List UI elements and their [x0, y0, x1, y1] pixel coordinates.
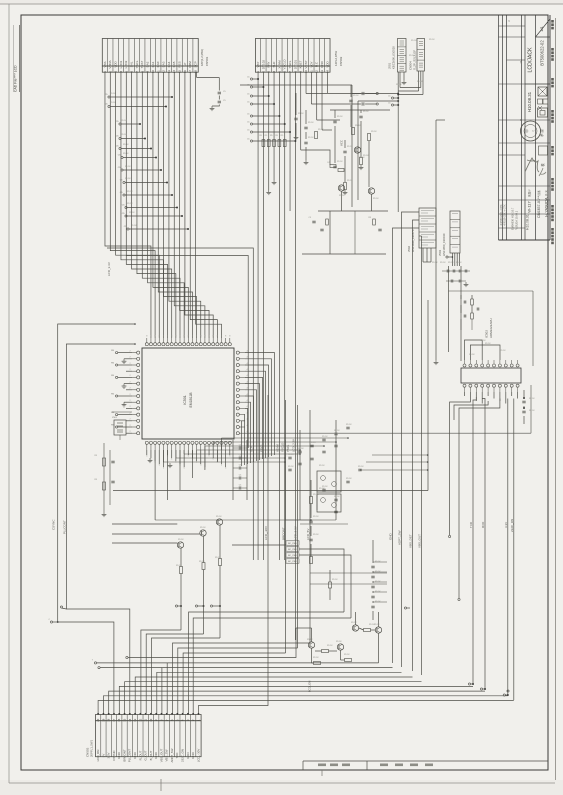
- wire right frame bus: [427, 300, 429, 491]
- pin bottom: [154, 441, 157, 444]
- pin left: [137, 413, 140, 416]
- test point stub: [250, 115, 252, 117]
- svg-text:YSCL: YSCL: [135, 60, 139, 68]
- opto coupler PC502: [317, 494, 341, 512]
- pin right: [236, 376, 239, 379]
- capacitor C540: [309, 520, 312, 522]
- test point R_OUT: [175, 605, 177, 607]
- svg-text:SCP: SCP: [249, 446, 253, 452]
- wire PC input rail: [155, 519, 311, 521]
- pin bottom: [220, 441, 223, 444]
- title sheet cell 1/1: [536, 19, 551, 37]
- pin right: [236, 425, 239, 428]
- capacitor: [371, 585, 374, 587]
- wire J501 drop: [397, 95, 399, 213]
- svg-text:R5 1K: R5 1K: [288, 454, 294, 456]
- pin bottom: [174, 441, 177, 444]
- pin left: [137, 388, 140, 391]
- wire cluster rails: [334, 110, 336, 118]
- title stamp boxes: [538, 87, 547, 96]
- svg-text:R5 1K: R5 1K: [456, 262, 462, 264]
- svg-text:R5 1K: R5 1K: [346, 478, 352, 480]
- capacitor C531: [463, 315, 465, 318]
- svg-text:LCD2: LCD2: [124, 60, 128, 68]
- pin bottom: [158, 441, 161, 444]
- transistor Q512: [352, 625, 358, 631]
- pin top: [174, 343, 177, 346]
- capacitor C532: [476, 308, 478, 311]
- svg-text:**: **: [519, 119, 523, 121]
- wire rails y85-99 top right: [240, 84, 352, 86]
- capacitor: [334, 498, 337, 500]
- wire IC502 top routing: [465, 340, 483, 360]
- svg-text:R5 1K: R5 1K: [334, 496, 340, 498]
- pin: [469, 364, 472, 367]
- svg-text:RC_PRO: RC_PRO: [288, 549, 297, 551]
- svg-text:PRY: PRY: [267, 61, 271, 67]
- capacitor C510: [333, 120, 336, 122]
- test point TXD: [468, 683, 470, 685]
- capacitor: [346, 426, 349, 428]
- svg-text:R5 1K: R5 1K: [336, 641, 342, 643]
- svg-text:R5 1K: R5 1K: [298, 448, 304, 450]
- wire IC501 bottom fanout: [146, 450, 148, 455]
- pin top: [228, 343, 231, 346]
- wire RGB jogs to pins: [141, 630, 181, 715]
- resistor R543: [345, 659, 352, 662]
- pin top: [199, 343, 202, 346]
- capacitor C520: [304, 126, 307, 128]
- svg-text:R5 1K: R5 1K: [375, 581, 381, 583]
- pin bottom: [203, 441, 206, 444]
- pin top: [187, 343, 190, 346]
- pin right: [236, 419, 239, 422]
- svg-text:R5 1K: R5 1K: [440, 262, 446, 264]
- test point stub: [250, 123, 252, 125]
- svg-text:X501: X501: [112, 417, 118, 419]
- test point C pair: [391, 97, 393, 99]
- pin bottom: [195, 441, 198, 444]
- transistor Q513: [375, 627, 381, 633]
- svg-text:R5 1K: R5 1K: [371, 131, 377, 133]
- wire bottom pin drops: [154, 450, 156, 520]
- title handwritten stamp: [525, 158, 539, 172]
- svg-text:GND: GND: [389, 533, 393, 541]
- wire CN502 right turns: [306, 93, 361, 95]
- svg-text:18: 18: [107, 718, 111, 721]
- wire pin-to-cap combs: [162, 450, 164, 462]
- capacitor: [310, 444, 313, 446]
- capacitor: [298, 450, 301, 452]
- svg-text:CB0357-01**: CB0357-01**: [537, 195, 541, 218]
- test point stub: [119, 137, 121, 139]
- resistor R513: [219, 559, 222, 566]
- wire GND vertical: [392, 300, 394, 663]
- ground CN504 drop: [435, 360, 437, 362]
- wire cap rails: [284, 440, 286, 520]
- ground CN502: [268, 190, 270, 192]
- pin top: [145, 343, 148, 346]
- pin top: [220, 343, 223, 346]
- connector CN502 14P: [255, 39, 330, 67]
- connector CN503 20P: [96, 715, 202, 721]
- svg-text:CAD File**** LCD: CAD File**** LCD: [14, 65, 18, 92]
- svg-text:VSY: VSY: [256, 61, 260, 67]
- wire U loop to CN504: [400, 87, 421, 89]
- svg-text:R5 1K: R5 1K: [308, 137, 314, 139]
- pin left: [137, 376, 140, 379]
- svg-text:16: 16: [117, 718, 121, 721]
- svg-text:YSCLD: YSCLD: [281, 443, 285, 452]
- svg-text:HSJ1636_010570: HSJ1636_010570: [411, 229, 415, 252]
- svg-text:R5 1K: R5 1K: [363, 111, 369, 113]
- svg-text:R5 1K: R5 1K: [313, 657, 319, 659]
- capacitor: [446, 270, 448, 273]
- wire SCP long feeder: [107, 248, 253, 560]
- svg-text:CN501: CN501: [205, 56, 209, 66]
- wire ADPT_SW vertical: [401, 300, 403, 667]
- pin top: [224, 343, 227, 346]
- svg-text:14: 14: [128, 718, 132, 721]
- svg-text:5V: 5V: [101, 754, 105, 758]
- test point stub: [119, 123, 121, 125]
- svg-text:RES: RES: [177, 61, 181, 67]
- svg-text:VDDA: VDDA: [108, 60, 112, 68]
- svg-text:17: 17: [112, 718, 116, 721]
- svg-text:R5 1K: R5 1K: [375, 571, 381, 573]
- capacitor C516: [361, 102, 363, 105]
- svg-text:R5 1K: R5 1K: [469, 354, 475, 356]
- svg-text:R5 1K: R5 1K: [123, 144, 129, 146]
- svg-text:VBS_SW: VBS_SW: [165, 749, 169, 761]
- svg-text:1/1: 1/1: [539, 25, 544, 31]
- svg-text:R5 1K: R5 1K: [375, 591, 381, 593]
- svg-text:R5 1K: R5 1K: [313, 516, 319, 518]
- svg-text:X1NM: X1NM: [275, 444, 279, 452]
- frame fold tick: [160, 779, 162, 791]
- svg-text:VOY: VOY: [309, 61, 313, 67]
- wire nested fan left group: [189, 612, 344, 715]
- ground below IC: [149, 458, 151, 460]
- capacitor C522: [294, 117, 297, 119]
- test point stub: [119, 147, 121, 149]
- wire J503 to IC502: [448, 266, 450, 352]
- svg-text:R5 1K: R5 1K: [359, 157, 365, 159]
- svg-text:R5 1K: R5 1K: [200, 527, 206, 529]
- transistor Q503: [216, 519, 222, 525]
- pin bottom: [212, 441, 215, 444]
- svg-text:VBS_DET: VBS_DET: [409, 534, 413, 548]
- pin right: [236, 407, 239, 410]
- capacitor: [238, 487, 240, 490]
- svg-text:YSCLD: YSCLD: [283, 59, 287, 70]
- svg-text:R5 1K: R5 1K: [429, 39, 435, 41]
- svg-text:H10.08.31: H10.08.31: [527, 91, 532, 112]
- pin bottom: [224, 441, 227, 444]
- svg-text:R_OUT: R_OUT: [138, 750, 142, 760]
- pin top: [208, 343, 211, 346]
- pin top: [154, 343, 157, 346]
- svg-text:RXD: RXD: [481, 521, 485, 528]
- pin left: [137, 382, 140, 385]
- wire J501 routing: [399, 72, 401, 88]
- svg-text:W-117: W-117: [527, 201, 532, 213]
- svg-text:VCC: VCC: [340, 140, 344, 146]
- svg-text:GND: GND: [191, 752, 195, 758]
- pin bottom: [149, 441, 152, 444]
- pin: [504, 364, 507, 367]
- capacitor: [458, 270, 460, 273]
- svg-text:R5 1K: R5 1K: [480, 340, 486, 342]
- svg-text:R5 1K: R5 1K: [337, 161, 343, 163]
- svg-text:12: 12: [138, 718, 142, 721]
- pin left: [137, 407, 140, 410]
- wire bus CN502 down: [257, 72, 259, 560]
- test point stub: [108, 105, 110, 107]
- net label boxes RC: [286, 541, 299, 545]
- pin right: [236, 370, 239, 373]
- svg-text:R5 1K: R5 1K: [351, 622, 357, 624]
- wire LCD_ON feed: [128, 628, 296, 658]
- test point stub: [127, 228, 129, 230]
- svg-text:EM1B11B: EM1B11B: [189, 392, 193, 408]
- pin top: [183, 343, 186, 346]
- capacitor C534: [522, 410, 525, 412]
- resistor: [283, 140, 286, 147]
- svg-text:KEC3600_010510: KEC3600_010510: [392, 46, 396, 69]
- capacitor C515: [361, 92, 363, 95]
- svg-text:PLLCONT: PLLCONT: [62, 520, 66, 534]
- svg-text:LCD_-30V: LCD_-30V: [264, 526, 268, 540]
- pin bottom: [199, 441, 202, 444]
- pin right: [236, 388, 239, 391]
- svg-text:DA4: DA4: [167, 61, 171, 67]
- pin right: [236, 401, 239, 404]
- pin right: [236, 432, 239, 435]
- pin: [481, 364, 484, 367]
- pin top: [166, 343, 169, 346]
- wire RC to fan2: [299, 549, 344, 612]
- pin: [487, 364, 490, 367]
- svg-text:B_OUT: B_OUT: [149, 750, 153, 760]
- wire cluster bottom rail: [302, 253, 386, 255]
- svg-text:TXD: TXD: [469, 521, 473, 528]
- svg-text:承 認: 承 認: [539, 129, 544, 137]
- test points above connector: [94, 662, 96, 664]
- capacitor: [238, 467, 240, 470]
- pin top: [170, 343, 173, 346]
- svg-text:R5 1K: R5 1K: [127, 191, 133, 193]
- svg-text:R5 1K: R5 1K: [337, 116, 343, 118]
- transistor Q501: [177, 542, 183, 548]
- pin right: [236, 357, 239, 360]
- transistor Q504: [338, 185, 344, 191]
- svg-text:略图-F: 略图-F: [528, 189, 532, 197]
- wire nested fan to CN503: [98, 701, 514, 715]
- resistor R522: [368, 134, 371, 141]
- pin right: [236, 363, 239, 366]
- pin top: [195, 343, 198, 346]
- capacitor: [334, 432, 337, 434]
- capacitor: [238, 457, 240, 460]
- svg-text:232C_ON: 232C_ON: [181, 749, 185, 762]
- test point G_OUT: [195, 605, 197, 607]
- test point stub: [250, 78, 252, 80]
- pin top: [178, 343, 181, 346]
- svg-text:R5 1K: R5 1K: [110, 93, 116, 95]
- svg-text:R5 1K: R5 1K: [355, 125, 361, 127]
- connector CN501 18P: [102, 39, 198, 67]
- resistor R511: [180, 567, 183, 574]
- svg-text:DA2: DA2: [146, 61, 150, 67]
- ground: [211, 106, 213, 108]
- svg-text:DA5: DA5: [172, 61, 176, 67]
- capacitor column left of PC: [232, 440, 234, 500]
- frame footer strip: [303, 760, 548, 762]
- svg-text:DA1: DA1: [151, 61, 155, 67]
- transistor Q506: [368, 188, 374, 194]
- wire J-side verticals below IC502: [449, 420, 451, 535]
- wire IC502 right loop: [449, 290, 534, 292]
- svg-text:R5 1K: R5 1K: [332, 579, 338, 581]
- pin right: [236, 394, 239, 397]
- pin bottom: [187, 441, 190, 444]
- components cluster mid right: [330, 109, 390, 111]
- wire J502 left taps: [402, 212, 420, 300]
- svg-text:R5 1K: R5 1K: [369, 624, 375, 626]
- title bottom strip kanji: [551, 20, 554, 23]
- capacitor C530: [463, 301, 465, 304]
- pin: [510, 364, 513, 367]
- svg-text:R5 1K: R5 1K: [485, 343, 491, 345]
- capacitor: [452, 270, 454, 273]
- svg-text:3.3V: 3.3V: [504, 522, 508, 528]
- wire top rail y77: [197, 77, 220, 79]
- svg-text:YSCL: YSCL: [286, 444, 290, 452]
- resistor: [267, 140, 270, 147]
- svg-text:YSCL: YSCL: [288, 60, 292, 68]
- resistor R541: [364, 629, 371, 632]
- svg-text:R5 1K: R5 1K: [125, 166, 131, 168]
- svg-text:SHF: SHF: [272, 61, 276, 67]
- capacitor C521: [304, 141, 307, 143]
- test point RXD: [480, 688, 482, 690]
- test point stub: [250, 95, 252, 97]
- capacitor: [322, 488, 325, 490]
- wire VBS_OUT vertical: [421, 305, 423, 675]
- capacitor: [334, 444, 337, 446]
- pin top: [212, 343, 215, 346]
- capacitor: [358, 468, 361, 470]
- resistor R505: [103, 458, 106, 466]
- svg-text:LCD1: LCD1: [119, 60, 123, 68]
- capacitor: [371, 575, 374, 577]
- svg-text:R5 1K: R5 1K: [409, 55, 415, 57]
- svg-text:13: 13: [133, 718, 137, 721]
- pin right: [236, 382, 239, 385]
- wire bus CN501 to IC501: [105, 72, 151, 338]
- pin bottom: [166, 441, 169, 444]
- svg-text:VBS_OUT: VBS_OUT: [159, 749, 163, 763]
- resistor: [262, 140, 265, 147]
- svg-text:19: 19: [101, 718, 105, 721]
- pin bottom: [191, 441, 194, 444]
- svg-text:PLLCONT: PLLCONT: [128, 749, 132, 763]
- svg-text:DA0: DA0: [156, 61, 160, 67]
- frame footer text marks: [318, 764, 326, 767]
- resistor R521: [360, 158, 363, 165]
- svg-text:BT500622-02: BT500622-02: [540, 40, 545, 66]
- test point stub: [108, 96, 110, 98]
- test point stub: [121, 156, 123, 158]
- resistor R530: [471, 299, 474, 305]
- svg-text:H10.08.31: H10.08.31: [526, 214, 530, 230]
- svg-text:HSJ1650_010040: HSJ1650_010040: [442, 233, 446, 256]
- test point 3.3V: [503, 694, 505, 696]
- svg-text:R5 1K: R5 1K: [129, 212, 135, 214]
- crystal X501: [114, 420, 126, 435]
- svg-text:R5 1K: R5 1K: [353, 95, 359, 97]
- title row W-117: [525, 199, 550, 201]
- svg-text:VDD: VDD: [114, 61, 118, 68]
- svg-text:IC501: IC501: [183, 395, 187, 405]
- svg-text:R5 1K: R5 1K: [123, 153, 129, 155]
- wire horizontals upper-bottom: [310, 572, 387, 574]
- resistor R512: [202, 563, 205, 570]
- pin left: [137, 394, 140, 397]
- ground cluster: [344, 190, 346, 192]
- pin left: [137, 370, 140, 373]
- transistor Q505: [354, 147, 360, 153]
- svg-text:R5 1K: R5 1K: [110, 102, 116, 104]
- svg-text:R5 1K: R5 1K: [529, 398, 535, 400]
- svg-text:R5 1K: R5 1K: [308, 122, 314, 124]
- title strip line: [549, 15, 551, 240]
- svg-text:H.YASUDA: H.YASUDA: [545, 197, 549, 217]
- wire cap bank bottom rail: [285, 519, 336, 521]
- svg-text:TXD: TXD: [175, 753, 179, 759]
- opto coupler PC501: [317, 471, 341, 492]
- test point B_OUT: [210, 605, 212, 607]
- svg-text:R5 1K: R5 1K: [310, 442, 316, 444]
- pin bottom: [170, 441, 173, 444]
- pin top: [158, 343, 161, 346]
- pin top: [191, 343, 194, 346]
- svg-text:R5 1K: R5 1K: [121, 134, 127, 136]
- svg-text:RC_PRO: RC_PRO: [288, 543, 297, 545]
- capacitor: [346, 480, 349, 482]
- svg-text:DA3: DA3: [161, 61, 165, 67]
- wire mid horizontal group: [231, 490, 233, 492]
- wire mid verticals -30V rails: [267, 395, 269, 700]
- svg-text:R5 1K: R5 1K: [313, 494, 319, 496]
- wire 3.3V vertical: [507, 399, 509, 696]
- svg-text:*A: *A: [519, 60, 523, 63]
- svg-text:R5 1K: R5 1K: [215, 557, 221, 559]
- svg-text:R5 1K: R5 1K: [121, 120, 127, 122]
- wire IC501 left pin stubs: [118, 352, 132, 354]
- svg-text:GND: GND: [154, 752, 158, 758]
- capacitor C533: [522, 400, 525, 402]
- transistor Q510: [308, 642, 314, 648]
- svg-text:R5 1K: R5 1K: [347, 146, 353, 148]
- svg-text:BRCONT: BRCONT: [122, 749, 126, 761]
- svg-text:DY101: DY101: [293, 60, 297, 70]
- svg-text:BRCONT: BRCONT: [282, 527, 286, 540]
- wire cluster links: [315, 650, 322, 652]
- svg-text:R5 1K: R5 1K: [373, 198, 379, 200]
- svg-text:R5 1K: R5 1K: [288, 466, 294, 468]
